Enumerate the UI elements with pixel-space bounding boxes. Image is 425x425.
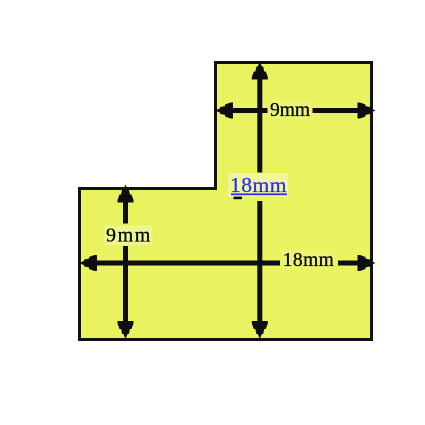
label background (18mm vertical) [229,173,289,197]
blue underline [231,193,287,195]
label background (9mm left) [105,226,153,246]
svg-text:9mm: 9mm [270,100,310,121]
L-shaped polygon (yellow region) [80,63,372,340]
svg-text:18mm: 18mm [283,250,334,271]
svg-text:9mm: 9mm [106,225,152,247]
dimension arrow: width 18mm (bottom part, horizontal double arrow) [79,255,376,271]
label 18mm (bottom) [282,250,335,269]
label 9mm (top) [269,100,311,119]
dimension arrow: width 9mm (top rectangle, horizontal double arrow) [215,103,376,119]
small black dash under the 1 [234,197,243,200]
dimension arrow: height 18mm (vertical double arrow) [252,62,268,340]
dimension arrow: height 9mm (left part, vertical double arrow) [118,185,134,340]
